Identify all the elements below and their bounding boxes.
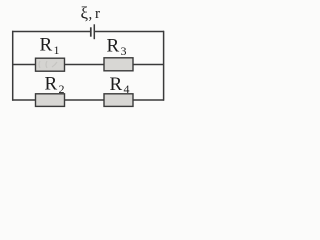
resistor R3 (104, 58, 133, 71)
wire bottom branch left stub (12, 99, 36, 101)
wire top-left segment (12, 31, 91, 33)
wire left vertical (12, 31, 14, 101)
svg-text:r: r (95, 6, 100, 22)
wire middle branch left stub (12, 64, 36, 66)
svg-text:R: R (110, 74, 123, 95)
wire right vertical (163, 31, 165, 101)
battery cell ξ,r long plate (93, 24, 95, 39)
svg-text:3: 3 (121, 44, 127, 58)
wire bottom branch center segment (64, 99, 104, 101)
svg-text:ξ: ξ (81, 4, 89, 23)
wire middle branch right stub (133, 64, 164, 66)
svg-text:1: 1 (54, 43, 60, 57)
resistor R2 (36, 94, 65, 107)
svg-text:,: , (89, 7, 93, 23)
svg-text:2: 2 (59, 82, 65, 96)
resistor R4 (104, 94, 133, 107)
resistor R1 (36, 58, 65, 71)
wire middle branch center segment (64, 64, 104, 66)
wire bottom branch right stub (133, 99, 164, 101)
svg-text:R: R (40, 35, 53, 56)
svg-text:R: R (45, 74, 58, 95)
svg-text:4: 4 (124, 82, 130, 96)
svg-text:R: R (107, 36, 120, 57)
wire top-right segment (94, 31, 164, 33)
battery cell ξ,r short plate (90, 27, 92, 36)
